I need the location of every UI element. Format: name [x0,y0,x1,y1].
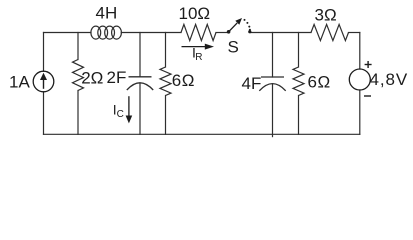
capacitor 4F [259,77,285,91]
wire 2-ohm branch bottom stub [77,91,79,135]
svg-text:1A: 1A [9,73,30,92]
resistor 3-ohm (horizontal zigzag) [311,24,349,40]
wire left vertical upper [43,33,45,72]
wire bottom horizontal [44,133,360,135]
svg-text:6Ω: 6Ω [172,71,195,90]
resistor 10-ohm (horizontal zigzag) [181,24,216,40]
svg-text:S: S [228,38,239,57]
current annotation I_C arrow [126,96,133,123]
plus sign [365,64,372,66]
node 2-ohm branch top stub [77,33,79,60]
svg-text:10Ω: 10Ω [179,4,211,23]
wire 6-ohm-left branch top stub [165,33,167,68]
svg-text:6Ω: 6Ω [308,73,331,92]
current annotation I_R arrow [182,44,215,50]
current source 1A [33,71,54,92]
wire 2F branch top stub [139,33,141,77]
wire top middle (inductor to 10-ohm) [121,32,181,34]
resistor 2-ohm (vertical zigzag) [73,60,84,91]
wire left vertical lower [43,92,45,135]
wire switch to 3-ohm [250,32,311,34]
wire top-left horizontal [44,32,92,34]
svg-text:4H: 4H [96,4,118,23]
svg-text:3Ω: 3Ω [315,5,337,24]
resistor 6-ohm left (vertical zigzag) [160,67,171,96]
svg-text:4F: 4F [242,74,262,93]
voltage source V1 4,8V [349,61,371,96]
svg-text:2Ω: 2Ω [81,69,103,88]
switch S [227,18,252,34]
wire 6-ohm-left branch bottom stub [165,96,167,135]
wire 6-ohm-right branch bottom stub [298,96,300,135]
svg-text:2F: 2F [107,68,127,87]
minus sign [364,95,371,97]
inductor L1 4H coil [91,26,122,39]
svg-text:R: R [195,52,202,63]
wire 2F branch bottom stub [139,83,141,134]
wire 4F branch top stub [272,33,274,78]
svg-text:C: C [117,109,124,120]
wire 6-ohm-right branch top stub [298,33,300,68]
capacitor 2F [127,77,153,90]
wire 3-ohm to top-right corner [349,32,360,34]
svg-text:4,8V: 4,8V [370,70,409,89]
wire right vertical upper [359,33,361,70]
wire 4F branch bottom stub [272,84,274,137]
wire 10-ohm to switch contact [216,32,229,34]
resistor 6-ohm right (vertical zigzag) [293,67,304,96]
wire right vertical lower [359,90,361,134]
